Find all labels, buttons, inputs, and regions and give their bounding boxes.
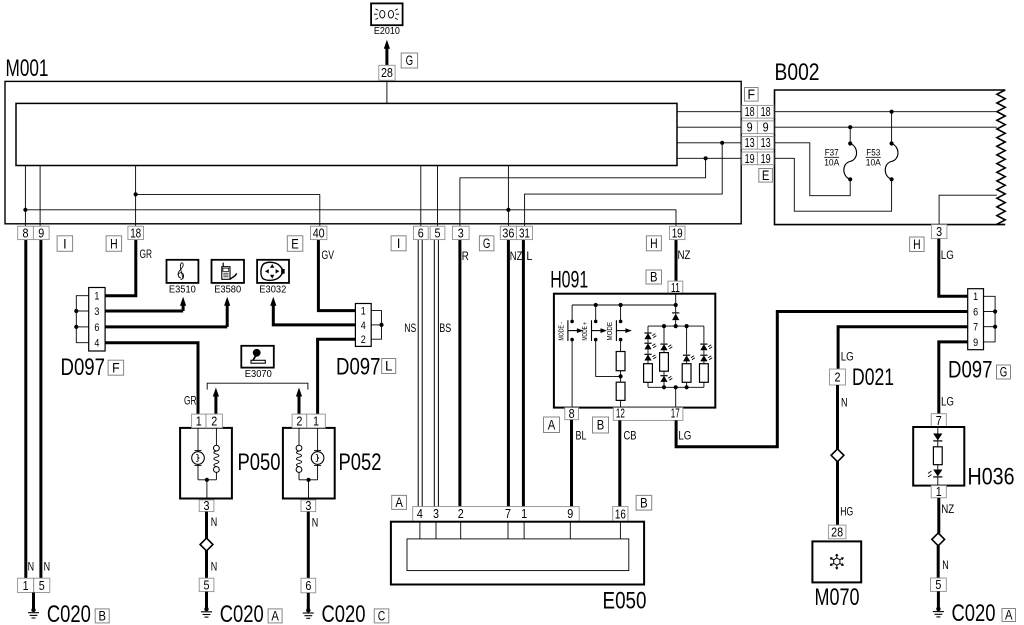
svg-text:5: 5 [204,577,210,592]
svg-text:B: B [98,609,106,624]
svg-text:C020: C020 [220,601,264,625]
letter box F [745,88,759,102]
svg-text:N: N [211,517,218,529]
svg-text:LG: LG [841,352,854,364]
junction dot pin36 net [506,208,510,212]
pin box 3 P050 [199,500,214,512]
phone icon E3580 [222,263,237,280]
wire D021 branch to D097G pin7 [838,327,968,369]
connector D097 F bracket [76,296,88,343]
wire CB H091 pin12 to E050 pin16 [618,420,621,506]
wire NZ M001 pin19 to H091 pin11 [675,240,678,282]
lamp icon E2010 [374,9,399,20]
svg-text:E3510: E3510 [169,284,197,295]
svg-text:10A: 10A [824,157,840,168]
svg-text:2: 2 [361,334,366,346]
svg-text:36: 36 [502,225,514,240]
pin box 6 M001 [413,226,428,239]
svg-text:2: 2 [835,369,841,384]
svg-text:C020: C020 [322,601,366,625]
H036 internal diode [937,427,939,434]
svg-text:F: F [748,87,756,102]
arrow P052 pin2 to E3070 [296,388,302,397]
svg-text:13: 13 [745,136,755,150]
svg-text:H: H [110,236,118,251]
ground C020 C (P052) [307,593,310,612]
resistor R1 H091 [616,352,625,371]
svg-text:NS: NS [404,323,416,335]
pin box 5 C020A right [931,578,947,591]
pin box 2 P050 [206,414,222,428]
wire LG B002 pin3 to D097G pin1 [939,239,968,297]
wire B002 row 19 to fuse F53 [774,158,892,211]
fuse F37 10A [849,127,851,143]
H091 pin17 internal wire [675,387,677,407]
svg-text:16: 16 [615,507,626,522]
svg-text:A: A [1005,608,1013,623]
wire net 18-40 horizontal [136,193,320,195]
svg-text:C020: C020 [47,601,91,625]
svg-text:5: 5 [39,578,45,593]
svg-text:P052: P052 [339,449,382,476]
pin box 8 H091 [565,408,579,420]
svg-text:3: 3 [936,224,942,239]
svg-text:9: 9 [747,121,753,135]
svg-text:CB: CB [624,431,637,443]
svg-text:G: G [1000,365,1008,380]
wire M001 pin 3 internal net [460,158,706,226]
letter box G top [401,53,417,68]
svg-text:10A: 10A [866,157,882,168]
pin box 9 M001 [33,226,49,239]
svg-text:19: 19 [672,225,683,240]
svg-text:1: 1 [313,413,319,428]
wire B002 row 9 [774,126,997,128]
pin box 3 P052 [301,500,316,512]
svg-text:9: 9 [763,121,769,135]
connector D097 L bracket [371,311,381,340]
svg-text:N: N [942,560,949,572]
bracket wire to E3070 [207,383,308,389]
svg-text:1: 1 [973,291,978,303]
pin box 12-17 H091 [613,408,683,421]
svg-text:HG: HG [840,507,853,519]
steering controls H091 box [554,294,715,408]
svg-text:A: A [395,495,403,510]
svg-text:19: 19 [761,152,771,166]
pin box 1 P050 [192,414,206,428]
letter box G of D097 [997,365,1011,379]
splice diamond D021 [831,449,844,462]
svg-text:8: 8 [23,225,29,240]
svg-text:18: 18 [745,105,755,119]
junction dot pin8 net [23,208,27,212]
svg-text:7: 7 [505,506,511,521]
H091 top bus [572,304,676,306]
resistor R2 H091 [616,382,625,400]
svg-text:B002: B002 [775,59,820,86]
wire GV D097L pin2 to P052 pin1 [318,339,356,414]
wire GR pin18 to D097F pin1 [105,240,136,296]
ground C020 A (P050) [205,592,208,611]
wire D097G pin9 to H036 pin7 [939,342,968,414]
pin boxes 18-18 [742,105,758,118]
svg-text:GR: GR [184,395,197,407]
CD changer icon E3032 [261,262,285,280]
svg-text:LG: LG [678,431,691,443]
P050 lamp branch [197,428,199,452]
svg-text:B: B [597,418,605,433]
pin box 3 M001 [452,226,469,239]
wire M001 pin 9 internal [39,166,41,227]
svg-text:C020: C020 [952,600,996,625]
svg-text:LG: LG [941,397,954,409]
svg-text:A: A [271,609,279,624]
pin box 28 M070 [828,525,846,539]
svg-text:R: R [462,251,469,263]
svg-text:2: 2 [296,413,302,428]
splice diamond P050 [200,538,213,551]
svg-text:4: 4 [417,506,423,521]
pin box 2 D021 [830,369,846,385]
junction dot resistors H091 [619,374,623,378]
symbol box E3070 microphone [241,346,273,368]
letter box I center [391,236,406,251]
wire M001 pin 19 bottom internal [675,210,677,226]
wire M001 pin 6 internal [420,166,422,227]
pin box 1 P052 [307,414,326,428]
svg-text:N: N [28,562,34,574]
svg-text:18: 18 [130,225,141,240]
svg-text:L: L [385,359,393,374]
svg-text:H: H [650,236,658,251]
pin box 40 M001 [311,226,327,239]
svg-text:E3580: E3580 [214,284,242,295]
svg-text:5: 5 [435,225,441,240]
svg-text:H: H [913,237,921,252]
pin boxes 13-13 [742,136,758,149]
wire D097F pin6 to E3580 [105,325,228,328]
svg-text:N: N [211,562,218,574]
svg-text:1: 1 [521,506,527,521]
pin box 1-5 C020B [18,578,34,592]
P050 internal junction [198,479,216,481]
svg-text:7: 7 [936,413,942,428]
symbol box E3510 audio system [167,260,199,283]
svg-text:D021: D021 [852,364,894,391]
svg-text:3: 3 [204,498,210,513]
cigar lighter P052 box [283,428,335,499]
wire arrow to E2010 [384,40,390,49]
H091 LED bus upper [648,325,704,327]
wire row 13 right [677,142,741,144]
svg-text:9: 9 [38,225,44,240]
H036 internal LED [937,465,939,470]
svg-text:9: 9 [973,337,978,349]
svg-text:F: F [112,360,120,375]
H036 internal resistor [933,447,942,465]
svg-text:31: 31 [519,225,530,240]
letter box I [57,236,73,252]
lamp symbol E2010 box [371,3,403,25]
svg-text:D097: D097 [948,357,993,384]
pin box 16 E050 [613,507,628,522]
arrow to E3580 [224,297,230,306]
svg-text:17: 17 [671,407,680,421]
svg-text:1: 1 [361,306,366,318]
svg-text:6: 6 [305,578,311,593]
H091 LED branch 3 [686,326,688,354]
letter box F of D097 [108,360,124,375]
svg-text:NZ: NZ [678,250,691,262]
junction dot pin3 net to 19F [704,156,708,160]
letter box G center [479,236,494,251]
svg-text:7: 7 [973,322,978,334]
ground C020 A right [937,591,940,610]
wire LG H091 pin17 to D097G pin6 [676,312,968,447]
svg-text:8: 8 [569,406,575,421]
pin box 18 M001 [128,226,144,239]
H091 LED bus lower [648,386,704,388]
pin box 3 B002 [931,225,947,239]
svg-text:G: G [406,53,414,68]
svg-text:D097: D097 [61,354,106,381]
pin strip E050 [413,507,580,522]
wire R M001 pin3 to E050 pin2 [458,240,461,507]
svg-text:MODE +: MODE + [582,322,589,341]
svg-text:5: 5 [935,577,941,592]
wire NS twisted pair M001 pin6 to E050 pin4 [417,240,419,507]
P052 heater coil branch [298,428,300,445]
wire GR D097F pin4 to P050 pin1 [105,343,199,414]
pin box 19 M001 [669,226,685,239]
wire H036 to C020A right [937,498,940,533]
svg-text:MODE -: MODE - [559,322,566,341]
svg-text:D097: D097 [336,354,381,381]
letter box B above pin11 [646,270,662,284]
display H036 box [913,427,964,486]
svg-text:13: 13 [761,136,771,150]
svg-text:BL: BL [576,431,587,443]
svg-text:3: 3 [458,225,464,240]
svg-text:18: 18 [761,105,771,119]
arrow to E3510 [180,297,186,306]
svg-text:GR: GR [140,249,153,261]
letter box A below H091 [544,417,560,433]
pin box 7 H036 [931,414,946,427]
arrow P050 pin2 to E3070 [213,388,219,397]
wire N from pin 9 to C020B [39,240,42,579]
wire M001 pin 36 internal [507,166,509,227]
svg-text:E3032: E3032 [259,284,286,295]
ground C020 B [32,593,35,612]
svg-text:3: 3 [94,306,99,318]
svg-text:C: C [378,609,386,624]
svg-text:4: 4 [94,338,99,350]
pin boxes 19-19 [742,152,758,165]
wire B002 row 18 [774,111,997,113]
H091 LED branch 2 [663,326,665,343]
junction dot pin18 net [134,192,138,196]
wire pin28 to inner box [386,80,388,103]
svg-text:NZ: NZ [941,504,954,516]
P052 internal junction [299,479,318,481]
E050 pin stub wires [419,522,421,539]
wire M001 pin 8 internal [24,166,26,227]
svg-text:L: L [526,251,533,263]
wire row 9 right [677,126,741,128]
svg-text:N: N [841,398,848,410]
svg-text:1: 1 [936,484,942,499]
wire N from pin 8 to C020B [24,240,27,579]
radio E050 inner box [407,539,629,571]
svg-text:MODE: MODE [607,322,614,341]
wire N P052 to C020C [307,512,310,579]
svg-text:2: 2 [458,506,464,521]
letter box H right of B002 pin3 [910,237,925,252]
svg-text:LG: LG [941,250,954,262]
pin box 5 M001 [430,226,445,239]
svg-text:E3070: E3070 [245,369,273,380]
wire B002 pin 3 internal [939,195,997,224]
wire M001 pin 40 internal [319,194,321,226]
symbol box E3580 phone [212,260,245,283]
switch MODE+ H091 [594,303,598,307]
svg-text:E: E [762,168,770,183]
splice diamond H036 [932,533,945,546]
connector D097 L box [355,304,371,347]
connector D097 G bracket [984,296,996,342]
pin boxes 9-9 [742,121,758,134]
pin box 31 M001 [516,226,532,239]
connector D097 F box [89,288,105,352]
switch MODE- H091 [571,305,573,321]
svg-text:E050: E050 [603,588,647,615]
svg-text:1: 1 [94,291,99,303]
svg-text:19: 19 [745,152,755,166]
connector D097 G box [968,289,984,350]
svg-text:28: 28 [831,524,843,539]
svg-text:3: 3 [305,498,311,513]
radio E050 outer box [391,522,644,585]
wire M001 pin 31 internal net [525,143,723,226]
wire NZ M001 pin36 to E050 pin7 [507,240,510,507]
pin box 11 H091 [668,281,683,294]
svg-text:6: 6 [418,225,424,240]
pin box 28 M001 top [379,65,395,80]
svg-text:H036: H036 [968,464,1015,491]
svg-text:I: I [397,236,401,251]
arrow to E3032 [270,297,276,306]
letter box B below H091 [593,417,609,433]
cigar lighter P050 box [180,428,232,499]
fuse F53 10A [891,112,893,144]
letter box L of D097 [382,359,396,374]
letter box E [759,169,773,183]
pin box 8 M001 [18,226,34,239]
letter box E bottom [287,236,303,252]
letter box A above E050 [392,495,407,509]
pin box 2 P052 [292,414,307,428]
svg-text:1: 1 [23,578,29,593]
diode H091 (to LED bus) [675,305,677,314]
letter box H right [646,236,661,251]
wire row 19 right [677,157,741,159]
wire D097F pin3 to E3510 [105,310,184,313]
pin box 1 H036 [931,486,946,498]
wire B002 row 13 to fuse F37 [774,143,850,196]
P052 lamp branch [317,428,319,452]
wire M001 pin 5 internal [437,166,439,227]
junction dot pin31 net to 13F [720,141,724,145]
snowflake icon M070 [830,554,843,569]
treble clef icon E3510 [178,263,184,280]
wire M001 pin 18 internal [135,166,137,227]
svg-text:E: E [291,236,299,251]
wire L M001 pin31 to E050 pin1 [522,240,525,507]
svg-text:BS: BS [439,323,451,335]
svg-text:B: B [650,270,658,285]
svg-text:2: 2 [211,413,217,428]
svg-text:NZ: NZ [510,251,523,263]
svg-text:G: G [483,236,491,251]
svg-text:M070: M070 [815,584,860,611]
svg-text:9: 9 [567,506,573,521]
wire N P050 to C020A [205,512,208,539]
H091 LED branch 1 [647,326,649,332]
svg-text:P050: P050 [238,449,281,476]
pin box 5 C020A [199,578,214,591]
wire BL H091 pin8 to E050 pin9 [570,420,573,507]
symbol box E3032 CD changer [257,260,289,283]
letter box H [106,236,122,252]
wire E3032 to D097L pin4 [273,304,356,325]
letter box B above E050 [636,495,652,510]
H091 pin11 wire [675,294,677,305]
microphone icon E3070 [251,349,265,363]
ECU M001 outer box [5,81,741,223]
svg-text:6: 6 [94,322,99,334]
wire GV pin40 to D097L pin1 [318,240,356,311]
H091 LED branch 4 [703,326,705,343]
wire row 18 right [677,111,741,113]
svg-text:28: 28 [381,65,393,80]
svg-text:E2010: E2010 [374,26,400,37]
svg-text:A: A [548,417,556,432]
wire BS twisted pair M001 pin5 to E050 pin3 [433,240,435,507]
svg-text:3: 3 [433,506,439,521]
P050 heater coil branch [215,428,217,445]
svg-text:12: 12 [616,407,625,421]
svg-text:GV: GV [322,250,335,262]
svg-text:6: 6 [973,306,978,318]
svg-text:H091: H091 [550,266,588,293]
svg-text:40: 40 [313,225,325,240]
air conditioning M070 box [812,541,861,582]
wire ground net horizontal y210 [25,209,676,211]
switch MODE H091 [619,303,623,307]
fuse box B002 outline with zigzag edge [775,90,1006,225]
svg-text:1: 1 [196,413,202,428]
svg-text:4: 4 [361,320,366,332]
ECU M001 inner box [16,103,677,165]
svg-text:M001: M001 [6,55,49,82]
svg-text:N: N [44,562,51,574]
svg-text:N: N [312,518,319,530]
wire D021 pin2 to M070 [836,385,839,449]
pin box 6 C020C [301,578,316,593]
pin box 36 M001 [500,226,516,239]
